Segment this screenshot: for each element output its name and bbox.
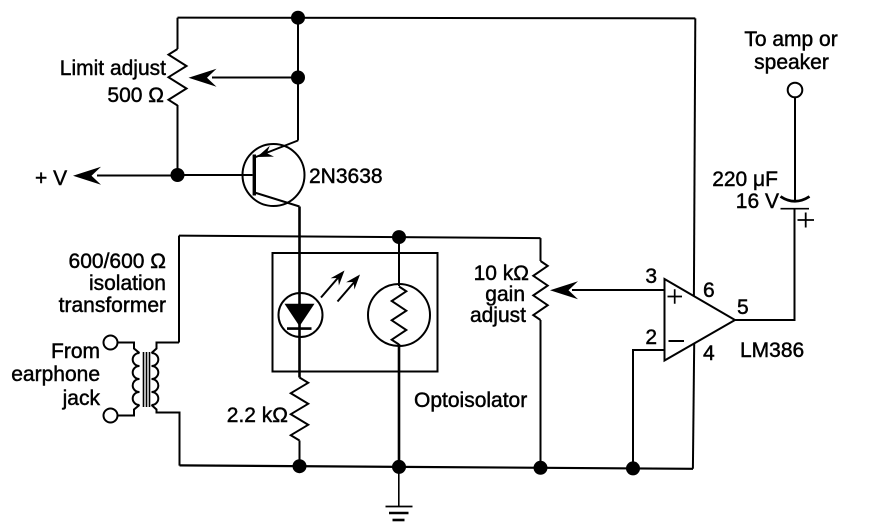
terminal from earphone jack bottom (104, 409, 118, 423)
wire photoresistor top (398, 237, 400, 286)
ground (386, 467, 413, 520)
wire output pin 5 (735, 209, 795, 320)
svg-text:2N3638: 2N3638 (309, 165, 383, 188)
node 2.2k bottom (293, 459, 307, 473)
optoisolator box (273, 253, 438, 372)
node pin2 return junction (626, 461, 640, 475)
wire secondary bottom lead (152, 405, 180, 466)
node top rail junction (291, 11, 305, 25)
svg-text:LM386: LM386 (740, 339, 804, 362)
photoresistor R2 (368, 284, 430, 346)
wire pin 2 return (633, 350, 665, 469)
wire +V lead (97, 175, 178, 177)
svg-text:3: 3 (645, 265, 657, 288)
svg-text:4: 4 (703, 342, 715, 365)
resistor R3 2.2 kohm (291, 378, 308, 441)
svg-text:6: 6 (703, 279, 715, 302)
transistor Q1 2N3638 PNP (243, 141, 305, 207)
svg-text:2: 2 (645, 326, 657, 349)
node ground junction (392, 460, 406, 474)
wire secondary top lead (152, 343, 180, 354)
LED D1 (279, 293, 323, 337)
wire middle rail (179, 236, 541, 239)
wire bottom rail (180, 465, 694, 468)
terminal from earphone jack top (104, 336, 118, 350)
wire capacitor top (794, 97, 796, 200)
svg-text:Limit adjust: Limit adjust (60, 57, 166, 80)
wire photoresistor bottom (398, 344, 401, 467)
wire left rail vertical (178, 236, 180, 343)
svg-text:transformer: transformer (59, 294, 166, 317)
wiper arrow of 10k pot / wire to pin 3 (572, 289, 665, 291)
svg-text:adjust: adjust (470, 304, 526, 327)
wire collector down to LED and 2.2k (298, 207, 301, 378)
svg-text:jack: jack (62, 387, 101, 410)
svg-text:isolation: isolation (89, 272, 166, 295)
wire top rail (178, 17, 696, 20)
resistor R1 500 ohm limit adjust (177, 18, 179, 49)
svg-text:To amp or: To amp or (744, 28, 837, 51)
node 10k pot bottom (534, 461, 548, 475)
terminal to amp or speaker (788, 83, 803, 98)
svg-text:16 V: 16 V (736, 190, 779, 213)
wire emitter riser (297, 18, 299, 141)
svg-text:speaker: speaker (754, 51, 829, 74)
svg-text:Optoisolator: Optoisolator (414, 389, 527, 412)
wiper arrow of 500 ohm pot (212, 77, 298, 79)
wire primary bottom lead (118, 405, 140, 416)
node middle rail / photoresistor (392, 230, 406, 244)
svg-text:600/600 Ω: 600/600 Ω (69, 250, 166, 273)
wire right feedback from top rail to pin 6 (694, 18, 695, 296)
node wiper junction (291, 71, 305, 85)
wire base (178, 174, 253, 176)
svg-text:From: From (51, 340, 100, 363)
wire primary top lead (118, 343, 140, 354)
light emission arrows (321, 271, 360, 302)
potentiometer R4 10 kohm gain adjust (540, 238, 542, 261)
svg-text:500 Ω: 500 Ω (107, 84, 164, 107)
svg-text:2.2 kΩ: 2.2 kΩ (227, 404, 288, 427)
wire pin 4 to ground rail (693, 344, 694, 469)
capacitor C1 220uF 16V (781, 197, 815, 228)
node +V junction (171, 168, 185, 182)
svg-text:220 μF: 220 μF (712, 168, 778, 191)
op-amp U1 LM386 (665, 279, 736, 361)
svg-text:+ V: + V (35, 167, 67, 190)
transformer T1 600/600 isolation (133, 352, 159, 407)
svg-text:earphone: earphone (11, 363, 100, 386)
svg-text:5: 5 (737, 296, 749, 319)
svg-text:10 kΩ: 10 kΩ (474, 262, 529, 285)
svg-text:gain: gain (485, 283, 525, 306)
